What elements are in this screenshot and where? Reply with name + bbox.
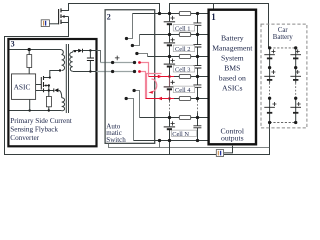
battery cell1 plates (164, 21, 175, 23)
ASIC U1 box (12, 74, 36, 100)
svg-text:Cell 2: Cell 2 (175, 46, 190, 53)
wire primary ground (10, 110, 62, 112)
transistor Q1 gate bar (58, 9, 60, 24)
plus marks car battery low (272, 102, 276, 106)
svg-text:Cell 1: Cell 1 (175, 26, 190, 33)
wire M1 source return (left rail and bottom ground bus) (5, 17, 270, 155)
resistor tap1 (179, 12, 190, 16)
wire Q1 gate (49, 23, 58, 25)
arrow tap4 (158, 75, 162, 78)
wire flyback output plus (light) (101, 62, 135, 64)
wire car battery column2 (295, 48, 297, 123)
capacitor C1 (output) (89, 51, 91, 72)
wire switch stair tap7 (126, 99, 133, 141)
svg-text:Switch: Switch (106, 136, 126, 144)
node secondary top (74, 50, 76, 52)
resistor R1 (ASIC supply) (28, 50, 30, 74)
wire tap2 (140, 34, 209, 36)
svg-text:Cell 3: Cell 3 (175, 67, 190, 74)
svg-text:Cell 4: Cell 4 (175, 87, 191, 94)
transistor Q1 channel (60, 8, 62, 24)
svg-text:Primary Side Current: Primary Side Current (10, 117, 71, 125)
car battery cellC plates col1 (264, 106, 275, 108)
resistor tap4 (179, 75, 190, 79)
resistor tap3 (179, 55, 190, 59)
wire box1 control output (224, 146, 233, 153)
wire box2 bottom link (109, 141, 270, 148)
wire ASIC sense (36, 90, 54, 92)
node contact 3 (135, 52, 138, 55)
wire ASIC gate drive (36, 84, 41, 86)
svg-text:ASIC: ASIC (14, 83, 31, 92)
node output minus (111, 70, 114, 73)
node contact 2 (131, 44, 134, 47)
transistor Q2 arrow (44, 84, 47, 87)
node contact 7 (125, 97, 128, 100)
svg-text:Battery: Battery (273, 34, 294, 41)
svg-text:Battery: Battery (221, 33, 244, 42)
battery cellN chain (169, 118, 171, 141)
wire top bus right (stack top to box1 and car battery) (170, 4, 269, 48)
node tap1 junctions (158, 12, 161, 15)
transistor Q2 gate bar (40, 77, 42, 90)
plus cell1 (171, 16, 175, 20)
capacitor tap1-2 (197, 14, 199, 35)
battery cell2 chain (169, 35, 171, 57)
wire secondary bottom (73, 71, 97, 73)
plus cell3 (171, 59, 175, 63)
node car battery bottom (268, 121, 271, 124)
transistor Q2 channel (43, 76, 45, 92)
wire tap1 (133, 13, 209, 15)
svg-text:2: 2 (107, 13, 111, 22)
wire switch stair tap1 (127, 14, 133, 39)
pulse source V1 box (41, 20, 49, 27)
node cap bottom (89, 70, 91, 72)
wire tap7 (stack bottom) (134, 140, 209, 142)
battery cell3 plates (164, 63, 175, 65)
capacitor tap6-7 (197, 118, 199, 141)
car battery cellA plates col2 (290, 54, 301, 56)
battery cell2 plates (164, 42, 175, 44)
svg-text:outputs: outputs (221, 133, 244, 142)
node ASIC ground (29, 109, 31, 111)
current loop arc (152, 79, 157, 92)
battery cellN plates (164, 126, 175, 128)
label Cell 4 (173, 86, 195, 94)
wire top bus left (MOSFET drain to cell stack top) (61, 4, 159, 14)
connector J1 box (216, 150, 223, 157)
box 1 border (BMS) (209, 10, 256, 145)
wire tap3 (148, 56, 209, 58)
node car battery mid1 (268, 66, 271, 69)
wire pink loop left (147, 74, 162, 99)
svg-text:based on: based on (219, 73, 246, 82)
node tap7 junctions (158, 139, 161, 142)
wire box1 top feed (213, 4, 215, 10)
wire cell4 chain pink (169, 77, 171, 99)
capacitor tap3-4 (197, 57, 199, 77)
battery cell4 chain (169, 77, 171, 99)
wire car battery bottom (dashed) (270, 122, 296, 124)
svg-text:Converter: Converter (10, 134, 39, 142)
wire tap6 (140, 117, 209, 119)
car battery cellB plates col1 (264, 75, 275, 77)
capacitor column dashed continuation (197, 99, 199, 118)
node tap5 cap junction (196, 97, 199, 100)
resistor tap2 (179, 33, 190, 37)
car battery cellC plates col2 (290, 106, 301, 108)
node contact 1 (125, 37, 128, 40)
label Cell N (172, 130, 197, 138)
battery cell1 chain (169, 14, 171, 35)
plus marks car battery top (271, 49, 275, 53)
resistor R2 (current sense) (46, 97, 51, 107)
wire switch stair tap2 (132, 35, 139, 46)
car battery cellB plates col2 (290, 75, 301, 77)
plus marks car battery mid (271, 70, 275, 74)
svg-text:ASICs: ASICs (222, 83, 243, 92)
arrow tap5 (158, 97, 162, 100)
wire M1 body (64, 16, 69, 18)
connector J1 waveform (217, 151, 219, 156)
node output plus (111, 61, 114, 64)
plus polarity mark (115, 56, 120, 61)
diode D2 (aux rectifier) (53, 88, 55, 92)
label Cell 2 (173, 45, 195, 53)
wire tap4 dark part (174, 76, 209, 78)
svg-text:1: 1 (211, 12, 216, 22)
wire tap5 dark part (174, 98, 209, 100)
node R1 top (28, 48, 31, 51)
node Q2 body-source (48, 84, 50, 86)
battery chain dashed continuation (169, 99, 171, 118)
wire tap5 red (146, 98, 175, 100)
plus cellN (171, 121, 175, 125)
wire ASIC bottom (29, 99, 31, 110)
diode D1 (output rectifier) (78, 49, 82, 53)
car battery cellA plates col1 (264, 54, 275, 56)
transformer T1 primary winding (62, 50, 65, 71)
node tap2 junctions (168, 33, 171, 36)
resistor tap5 (179, 97, 190, 101)
arrow loop bottom (148, 91, 152, 94)
node red contacts (138, 61, 141, 64)
node car battery top (268, 46, 271, 49)
node D1 cathode (89, 49, 91, 51)
wire switch stair tap3 (137, 54, 148, 57)
resistor tap6 (179, 116, 190, 120)
plus cell4 (171, 80, 175, 84)
wire primary top (10, 49, 62, 52)
box 3 border (flyback converter) (8, 39, 96, 146)
svg-text:System: System (221, 53, 244, 62)
transformer T1 secondary winding (70, 52, 73, 71)
svg-text:Sensing Flyback: Sensing Flyback (10, 126, 58, 134)
label Cell 3 (173, 66, 195, 74)
wire flyback output jog (97, 51, 101, 63)
node R2 bottom (48, 109, 50, 111)
svg-text:Management: Management (212, 43, 253, 52)
svg-text:Cell N: Cell N (172, 131, 189, 138)
battery cell3 chain (169, 57, 171, 77)
car battery dashed box (261, 24, 307, 128)
label Cell 1 (173, 25, 195, 33)
svg-text:3: 3 (11, 39, 15, 48)
wire tap4 red (149, 76, 175, 78)
wire Q2 drain (44, 71, 62, 78)
capacitor tap4-5 (197, 77, 199, 99)
wire Q2 body (44, 86, 49, 97)
wire secondary top (73, 51, 79, 53)
wire flyback output minus (light) (97, 71, 135, 73)
box 2 border (automatic switch) (105, 10, 155, 144)
wire switch stair tap6 (134, 91, 139, 118)
transistor Q1 arrow (62, 15, 65, 18)
capacitor tap2-3 (197, 35, 199, 57)
pulse source V1 waveform (43, 21, 45, 26)
node tap4 cap junction (196, 75, 199, 78)
transformer T1 aux winding (62, 98, 65, 111)
node car battery mid2 (268, 97, 271, 100)
wire car battery column1 (269, 48, 271, 123)
wire cell4 plate pink overlay (164, 86, 170, 88)
wire selected path plus (pink) (140, 63, 149, 77)
wire car battery top (dashed) (270, 47, 296, 49)
wire selected path minus (pink) (140, 72, 146, 99)
svg-text:BMS: BMS (224, 63, 240, 72)
node tap3 junctions (168, 55, 171, 58)
node contact 6 (132, 89, 135, 92)
wire stack bottom to ground bus (169, 141, 171, 155)
battery cell4 plates (164, 86, 175, 88)
plus cell2 (171, 38, 175, 42)
transformer T1 core (66, 44, 68, 113)
node winding bottom (59, 69, 61, 71)
node tap6 junctions (168, 116, 171, 119)
